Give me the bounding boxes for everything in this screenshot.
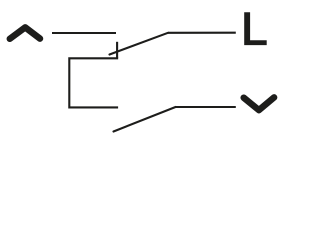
- wire: terminal L to blade S1: [168, 32, 236, 34]
- terminal label L (line / phase): [244, 12, 267, 45]
- contact post of switch S1: [116, 42, 118, 59]
- switch blade S2 (open): [114, 107, 176, 132]
- switch blade S1 (closed, crossing contact post): [110, 33, 169, 55]
- wire: link from contact post S1 to contact S2: [69, 58, 118, 107]
- down-arrow terminal symbol (lower output): [244, 97, 274, 110]
- wire: raise terminal lead: [52, 32, 116, 34]
- up-arrow terminal symbol (raise output): [10, 27, 40, 38]
- wire: blade S2 to lower terminal: [176, 106, 236, 108]
